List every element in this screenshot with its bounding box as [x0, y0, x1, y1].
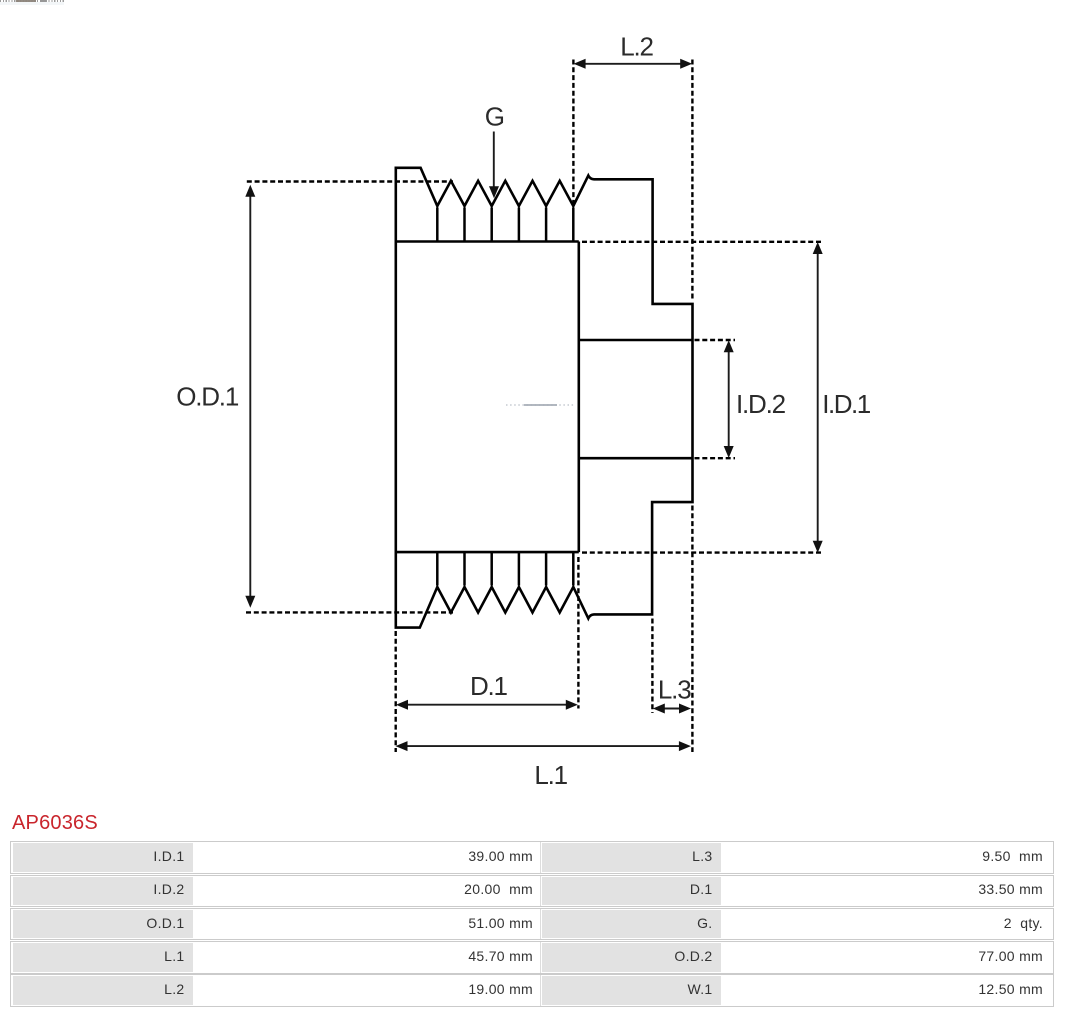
svg-text:D.1: D.1 [470, 671, 508, 701]
svg-text:L.1: L.1 [534, 760, 567, 790]
svg-text:I.D.2: I.D.2 [736, 389, 786, 419]
svg-text:L.2: L.2 [620, 32, 653, 62]
svg-text:L.3: L.3 [658, 674, 691, 704]
svg-text:G: G [485, 101, 504, 131]
svg-text:I.D.1: I.D.1 [822, 389, 870, 419]
svg-text:O.D.1: O.D.1 [176, 382, 239, 412]
